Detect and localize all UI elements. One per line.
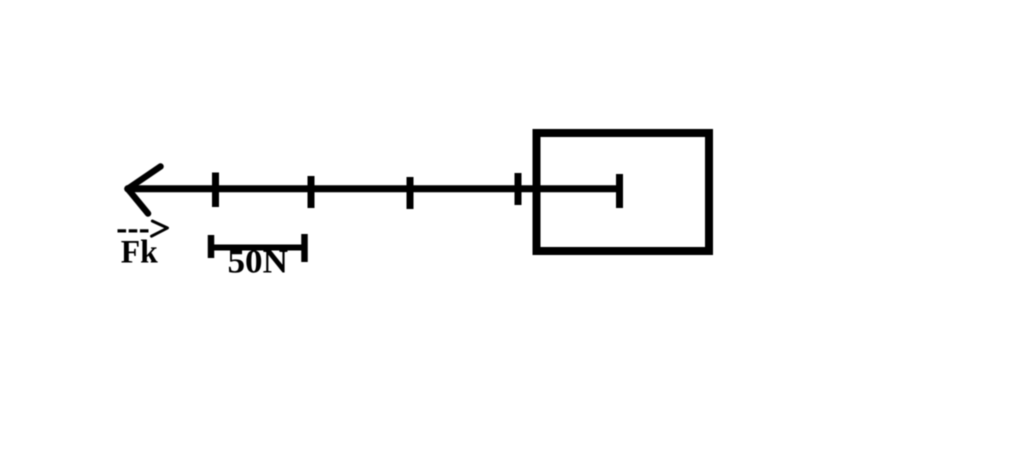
tick 1 on shaft — [212, 173, 219, 208]
small dashed arrow head (>) — [152, 221, 168, 236]
label Fk — [121, 234, 159, 270]
scale bar line — [208, 245, 307, 251]
tick 5 (arrow tail end inside box) — [616, 174, 623, 208]
small dashed arrow (direction of motion) dashes — [118, 229, 149, 232]
scale bar left tick — [208, 235, 215, 258]
arrowhead upper barb — [128, 167, 161, 190]
force arrow shaft — [127, 185, 620, 192]
tick 4 on shaft — [515, 173, 522, 205]
tick 3 on shaft — [407, 177, 414, 209]
label 50N — [228, 244, 289, 281]
arrowhead lower barb — [128, 189, 149, 214]
svg-text:50N: 50N — [228, 244, 289, 281]
scale bar right tick — [301, 234, 308, 262]
block (box) — [537, 133, 710, 251]
svg-text:Fk: Fk — [121, 234, 159, 270]
tick 2 on shaft — [308, 176, 315, 208]
